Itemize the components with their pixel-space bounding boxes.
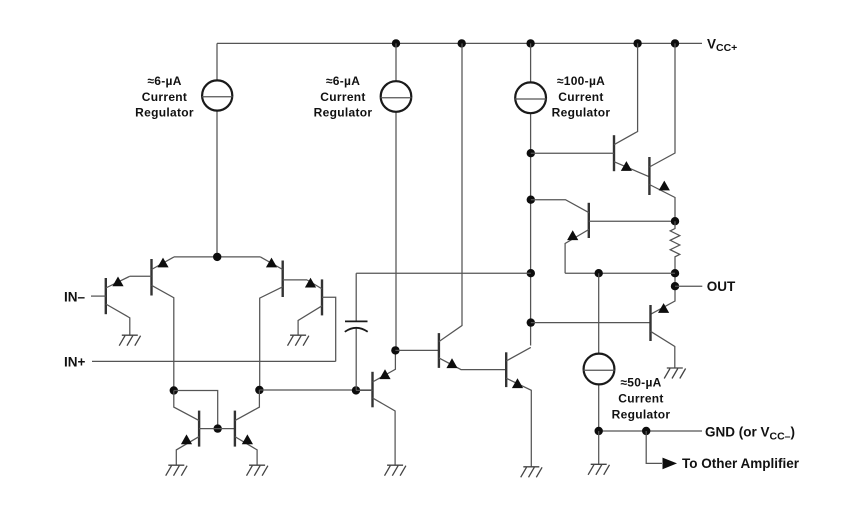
current regulator I3 100uA xyxy=(530,43,532,345)
svg-text:Current: Current xyxy=(142,90,187,104)
transistor Q8 (NPN) xyxy=(438,333,440,368)
node rail-Q11 collector xyxy=(671,39,679,47)
node Q3 collector / mirror xyxy=(255,386,263,394)
node tail xyxy=(213,253,221,261)
arrow Q10 emitter xyxy=(621,161,632,171)
wire tail from I1 xyxy=(174,256,260,258)
node GND-I4 xyxy=(595,427,603,435)
transistor Q6 (mirror right NPN) xyxy=(234,411,236,447)
transistor Q12 (protect PNP) xyxy=(588,203,590,238)
wire IN+ xyxy=(92,360,336,362)
wire VCC+ rail xyxy=(217,42,702,44)
wire GND rail xyxy=(599,430,702,432)
wire I3 node to Q13 base xyxy=(531,322,651,324)
current regulator I2 6uA xyxy=(395,43,397,350)
wire mirror to 2nd stage xyxy=(259,389,372,391)
transistor Q2 (IN- inner PNP) xyxy=(150,259,152,296)
resistor R1 xyxy=(671,217,679,225)
current regulator I4 50uA xyxy=(598,273,600,431)
arrow Q12 emitter xyxy=(567,230,578,240)
arrow Q5 emitter xyxy=(181,434,192,444)
node rail-Q8 collector riser xyxy=(458,39,466,47)
wire cap top to I3 chain xyxy=(356,272,531,274)
capacitor C1 xyxy=(355,273,357,390)
ground Q5 emitter xyxy=(166,465,187,476)
svg-text:IN+: IN+ xyxy=(64,354,86,369)
arrow Q13 emitter xyxy=(658,303,669,313)
ground Q9 xyxy=(521,467,542,478)
svg-text:Current: Current xyxy=(558,90,603,104)
wire Q7 to Q8 base xyxy=(395,349,439,351)
arrow Q9 emitter xyxy=(512,378,523,388)
arrow to other amplifier xyxy=(663,458,678,470)
node I2-Q7 xyxy=(391,346,399,354)
node OUT xyxy=(671,282,679,290)
ground Q6 emitter xyxy=(247,465,268,476)
svg-text:OUT: OUT xyxy=(707,279,736,294)
svg-text:≈50-µA: ≈50-µA xyxy=(620,375,661,389)
svg-text:Current: Current xyxy=(618,391,663,405)
ground Q1 collector xyxy=(119,335,140,346)
wire Q12 emitter line xyxy=(565,272,675,274)
arrow Q8 emitter xyxy=(446,358,457,368)
node GND-other amp xyxy=(642,427,650,435)
arrow Q6 emitter xyxy=(242,434,253,444)
transistor Q4 (IN+ outer PNP) xyxy=(321,279,323,315)
node I3-cap line xyxy=(527,269,535,277)
arrow Q4 emitter xyxy=(305,278,316,288)
node I3-Q10 base xyxy=(527,149,535,157)
wire to other amplifier xyxy=(646,431,662,463)
ground Q7 xyxy=(385,465,406,476)
transistor Q3 (IN+ inner PNP) xyxy=(282,261,284,298)
node rail-Q10 collector xyxy=(633,39,641,47)
node rail-I2 xyxy=(392,39,400,47)
ground Q13 xyxy=(664,368,685,379)
arrow Q11 emitter xyxy=(659,181,670,191)
ground Q4 collector xyxy=(288,335,309,346)
arrow Q1 emitter xyxy=(112,277,123,287)
svg-text:Regulator: Regulator xyxy=(314,106,373,120)
ground I4 xyxy=(588,464,609,475)
transistor Q1 (IN- outer PNP) xyxy=(105,278,107,314)
node rail-I3 xyxy=(526,39,534,47)
svg-text:IN–: IN– xyxy=(64,289,86,304)
node resistor bottom xyxy=(671,269,679,277)
svg-text:≈6-µA: ≈6-µA xyxy=(326,74,360,88)
svg-text:Regulator: Regulator xyxy=(552,106,611,120)
wire OUT stub xyxy=(675,285,702,287)
svg-text:To Other Amplifier: To Other Amplifier xyxy=(682,456,800,471)
transistor Q5 (mirror left NPN) xyxy=(198,411,200,447)
svg-text:Current: Current xyxy=(320,90,365,104)
node I3-Q12 collector xyxy=(527,196,535,204)
arrow Q3 emitter xyxy=(266,258,277,268)
node cap bottom xyxy=(352,386,360,394)
svg-text:≈6-µA: ≈6-µA xyxy=(147,74,181,88)
svg-text:Regulator: Regulator xyxy=(612,407,671,421)
transistor Q10 (output Darlington 1, NPN) xyxy=(613,135,615,171)
transistor Q7 (2nd stage PNP) xyxy=(371,372,373,408)
svg-text:≈100-µA: ≈100-µA xyxy=(557,74,605,88)
node 50uA top xyxy=(595,269,603,277)
node mirror base xyxy=(214,424,222,432)
wire mirror diode link xyxy=(174,391,218,429)
arrow Q2 emitter xyxy=(157,258,168,268)
node Q2 collector / mirror xyxy=(170,386,178,394)
transistor Q13 (output sink PNP) xyxy=(649,305,651,341)
transistor Q11 (output Darlington 2, NPN) xyxy=(648,157,650,195)
transistor Q9 (NPN driver) xyxy=(505,352,507,387)
svg-text:Regulator: Regulator xyxy=(135,106,194,120)
arrow Q7 emitter xyxy=(379,369,390,379)
node I3-Q13 base xyxy=(527,318,535,326)
wire I4 to ground xyxy=(598,431,600,464)
current regulator I1 6uA xyxy=(216,43,218,257)
